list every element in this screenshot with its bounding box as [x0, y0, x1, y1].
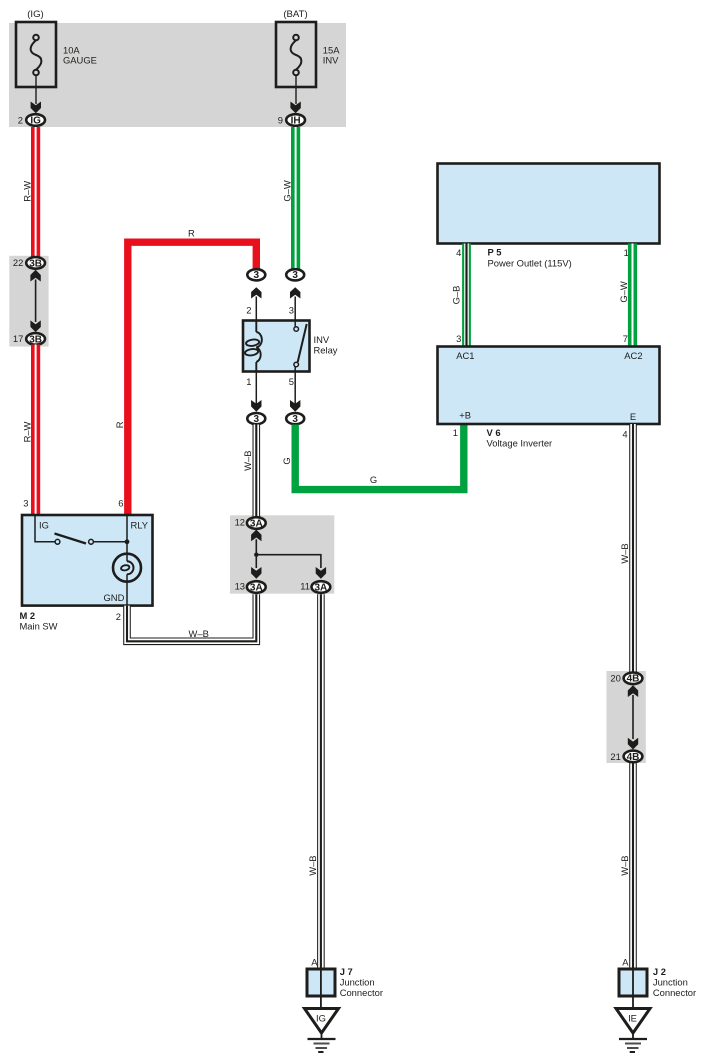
svg-text:Junction: Junction	[653, 977, 688, 988]
svg-text:AC1: AC1	[456, 350, 474, 361]
J2 internal wire	[632, 969, 634, 1009]
svg-text:2: 2	[116, 611, 121, 622]
fuse 10A GAUGE box	[16, 22, 56, 87]
svg-text:4B: 4B	[627, 752, 640, 763]
svg-text:IG: IG	[39, 520, 49, 531]
svg-text:A: A	[311, 957, 318, 968]
J2 junction connector box	[619, 969, 647, 996]
svg-text:2: 2	[18, 114, 23, 125]
connector oval 3 (relay pin5 bottom)	[286, 372, 304, 426]
connector oval IH	[286, 114, 305, 126]
connector 3B gray band	[9, 256, 48, 347]
svg-text:+B: +B	[459, 410, 471, 421]
svg-text:AC2: AC2	[624, 350, 642, 361]
svg-text:Junction: Junction	[340, 977, 375, 988]
connector oval 22 3B	[26, 257, 45, 269]
arrow up into 22	[30, 270, 40, 282]
svg-text:Power Outlet (115V): Power Outlet (115V)	[488, 257, 572, 268]
svg-text:3B: 3B	[29, 258, 42, 269]
svg-text:21: 21	[610, 751, 620, 762]
wire fuse2 to pin 9	[295, 75, 297, 104]
wire 12 to junction	[255, 539, 257, 568]
svg-text:A: A	[622, 957, 629, 968]
svg-text:3: 3	[254, 270, 260, 281]
INV relay switch	[294, 321, 307, 372]
svg-text:RLY: RLY	[131, 520, 149, 531]
svg-text:3: 3	[23, 497, 28, 508]
arrow down into 21	[628, 738, 638, 750]
svg-text:Relay: Relay	[314, 345, 338, 356]
svg-text:12: 12	[235, 517, 245, 528]
svg-text:W–B: W–B	[619, 543, 630, 563]
arrow into pin 2	[31, 102, 41, 114]
arrow down into 13	[251, 567, 261, 579]
svg-text:7: 7	[623, 333, 628, 344]
wire W-B relay pin1 to 12	[252, 425, 260, 518]
svg-text:GND: GND	[104, 592, 125, 603]
connector oval 21 4B	[624, 751, 643, 763]
svg-text:R–W: R–W	[21, 181, 32, 202]
wire R-W upper segment	[31, 127, 40, 258]
svg-text:GAUGE: GAUGE	[63, 55, 97, 66]
svg-text:4: 4	[456, 247, 461, 258]
svg-text:3A: 3A	[315, 582, 328, 593]
svg-text:6: 6	[118, 497, 123, 508]
svg-text:(IG): (IG)	[27, 9, 44, 20]
connector 4B gray band	[607, 671, 646, 763]
connector oval 3 (relay pin3 top)	[286, 269, 304, 320]
fuse 15A INV box	[276, 22, 316, 87]
svg-text:4: 4	[622, 429, 627, 440]
svg-text:M 2: M 2	[20, 610, 36, 621]
arrow up into 12	[251, 530, 261, 542]
svg-text:W–B: W–B	[242, 451, 253, 471]
INV relay box	[243, 321, 310, 372]
wire fuse1 to pin 2	[35, 75, 37, 104]
arrow up into 20	[628, 685, 638, 697]
svg-text:J 7: J 7	[340, 966, 353, 977]
top fuse-block gray band	[9, 23, 346, 127]
connector oval 3 (relay pin2 top)	[247, 269, 265, 320]
svg-text:Voltage Inverter: Voltage Inverter	[487, 437, 553, 448]
svg-text:4B: 4B	[627, 674, 640, 685]
svg-text:G–W: G–W	[618, 281, 629, 303]
Main SW switch	[35, 515, 127, 606]
svg-text:3B: 3B	[29, 334, 42, 345]
wire G thick (relay pin5 to V6 +B)	[295, 424, 464, 490]
svg-text:(BAT): (BAT)	[283, 9, 307, 20]
svg-text:Connector: Connector	[653, 987, 696, 998]
svg-text:R: R	[188, 228, 195, 239]
wire G-B (P5 pin4 to V6 AC1)	[462, 244, 471, 347]
J7 internal wire	[320, 969, 322, 1009]
wire W-B (21 to J2)	[629, 762, 637, 969]
J7 junction connector box	[307, 969, 335, 996]
svg-text:R–W: R–W	[21, 421, 32, 442]
svg-text:1: 1	[246, 376, 251, 387]
ground IG triangle	[305, 1009, 339, 1034]
junction dot 3A	[254, 553, 258, 557]
fuse 10A GAUGE element	[31, 35, 42, 76]
svg-text:3: 3	[456, 333, 461, 344]
svg-text:IG: IG	[30, 115, 41, 126]
arrow down into 11	[316, 567, 326, 579]
svg-text:INV: INV	[323, 55, 339, 66]
svg-text:9: 9	[278, 114, 283, 125]
fuse 15A INV element	[291, 35, 302, 76]
wire between 4B ovals	[632, 695, 634, 739]
svg-text:Connector: Connector	[340, 987, 383, 998]
svg-text:11: 11	[300, 581, 310, 592]
wire G-W (P5 pin1 to V6 AC2)	[628, 244, 637, 347]
arrow down into 17	[30, 320, 40, 332]
svg-text:Main SW: Main SW	[20, 621, 58, 632]
ground IE hatch	[619, 1033, 647, 1052]
svg-text:G: G	[281, 457, 292, 464]
svg-text:3A: 3A	[250, 518, 263, 529]
connector oval 3 (relay pin1 bottom)	[247, 372, 265, 426]
connector oval 13 3A	[247, 581, 266, 593]
svg-text:IG: IG	[316, 1013, 326, 1024]
wire junction to 11	[256, 555, 321, 568]
connector oval 11 3A	[312, 581, 331, 593]
svg-text:20: 20	[610, 673, 620, 684]
arrow into pin 9	[290, 102, 300, 114]
svg-text:17: 17	[13, 333, 23, 344]
connector oval IG	[26, 114, 45, 126]
connector oval 17 3B	[26, 333, 45, 345]
connector 3A gray band	[230, 515, 334, 593]
svg-text:3A: 3A	[250, 582, 263, 593]
Main SW lamp	[113, 554, 141, 582]
svg-text:W–B: W–B	[307, 855, 318, 875]
svg-text:G: G	[370, 474, 377, 485]
svg-text:22: 22	[13, 257, 23, 268]
svg-text:INV: INV	[314, 334, 330, 345]
svg-text:W–B: W–B	[619, 855, 630, 875]
svg-text:R: R	[114, 421, 125, 428]
P5 Power Outlet box	[438, 164, 660, 244]
svg-text:P 5: P 5	[488, 246, 502, 257]
svg-text:IE: IE	[628, 1013, 637, 1024]
Main SW junction dot	[125, 539, 130, 544]
svg-text:G–B: G–B	[451, 286, 462, 305]
INV relay coil	[245, 321, 262, 372]
wire W-B (V6 E to 20)	[629, 424, 637, 673]
svg-text:3: 3	[292, 270, 298, 281]
wire R-W lower segment	[31, 345, 40, 516]
connector oval 20 4B	[624, 673, 643, 685]
ground IG hatch	[308, 1033, 336, 1052]
svg-text:G–W: G–W	[281, 180, 292, 202]
ground IE triangle	[616, 1009, 650, 1034]
wire W-B MainSW pin2 to 13	[127, 594, 256, 641]
svg-text:IH: IH	[291, 115, 301, 126]
svg-text:13: 13	[235, 581, 245, 592]
svg-text:J 2: J 2	[653, 966, 666, 977]
V6 Voltage Inverter box	[438, 347, 660, 425]
wire R thick (Main SW pin6 to relay)	[128, 242, 256, 515]
svg-text:5: 5	[289, 376, 294, 387]
wire G-W from IH to relay oval	[291, 127, 300, 270]
wire between 3B ovals	[35, 280, 37, 323]
svg-text:W–B: W–B	[189, 628, 209, 639]
svg-text:2: 2	[246, 305, 251, 316]
svg-text:1: 1	[453, 427, 458, 438]
Main SW box M2	[22, 515, 153, 606]
svg-text:3: 3	[289, 305, 294, 316]
svg-text:E: E	[630, 411, 636, 422]
svg-text:3: 3	[254, 414, 260, 425]
connector oval 12 3A	[247, 517, 266, 529]
wire W-B 11 to J7	[317, 594, 325, 969]
svg-text:3: 3	[292, 414, 298, 425]
